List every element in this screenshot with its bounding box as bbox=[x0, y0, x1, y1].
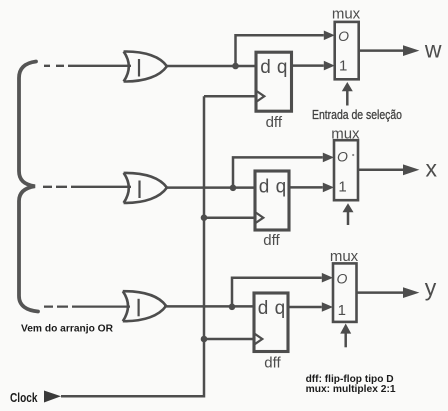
wire: row1 branch to MUX1 input 0 bbox=[236, 35, 324, 66]
svg-text:mux: mux bbox=[332, 6, 361, 23]
svg-text:w: w bbox=[424, 37, 442, 63]
svg-text:dff: dff bbox=[264, 355, 281, 372]
wire: row2 branch to MUX2 input 0 bbox=[233, 157, 323, 187]
wire: G1 output to FF1 d input bbox=[165, 65, 256, 68]
wire: MUX1 select input bbox=[346, 91, 349, 106]
svg-text:mux: mux bbox=[331, 125, 360, 142]
svg-text:O: O bbox=[337, 270, 348, 286]
svg-text:mux: multiplex 2:1: mux: multiplex 2:1 bbox=[306, 384, 396, 395]
junction node clock/FF2 bbox=[201, 214, 208, 221]
junction node clock/FF3 bbox=[201, 336, 208, 343]
or-gate G2 bbox=[124, 173, 167, 203]
junction node row 3 bbox=[229, 304, 236, 311]
svg-text:q: q bbox=[277, 57, 288, 78]
svg-text:d: d bbox=[260, 57, 271, 78]
wire: clock branch to FF2 bbox=[204, 216, 255, 219]
wire: dashed input row 3 bbox=[44, 305, 130, 307]
svg-text:x: x bbox=[425, 156, 437, 182]
svg-text:1: 1 bbox=[338, 179, 346, 196]
wire: MUX3 select input bbox=[344, 333, 347, 347]
wire: clock trunk bbox=[61, 96, 204, 396]
mux MUX3 bbox=[330, 248, 359, 322]
wire: FF2 q to MUX2 input 1 bbox=[289, 186, 323, 189]
svg-text:Vem do arranjo OR: Vem do arranjo OR bbox=[21, 323, 113, 335]
wire: clock branch to FF1 bbox=[204, 95, 256, 98]
wire: MUX2 output x bbox=[358, 169, 403, 172]
mux MUX2 bbox=[331, 125, 360, 200]
d flip-flop FF3 bbox=[254, 293, 288, 372]
wire: MUX2 select input bbox=[347, 212, 350, 226]
clock driver triangle bbox=[44, 391, 61, 403]
svg-text:O: O bbox=[338, 28, 349, 44]
svg-text:1: 1 bbox=[338, 302, 346, 319]
or-gate G3 bbox=[123, 291, 166, 321]
svg-text:d: d bbox=[259, 177, 270, 198]
wire: G2 output to FF2 d input bbox=[165, 186, 255, 189]
wire: FF1 q to MUX1 input 1 bbox=[292, 64, 324, 67]
svg-text:dff: dff bbox=[266, 114, 283, 131]
svg-text:q: q bbox=[275, 298, 286, 319]
mux MUX1 bbox=[332, 6, 361, 80]
svg-text:O: O bbox=[337, 149, 348, 165]
svg-text:d: d bbox=[258, 298, 269, 319]
wire: FF3 q to MUX3 input 1 bbox=[288, 306, 322, 309]
wire: MUX3 output y bbox=[357, 291, 404, 294]
scan dot inside MUX2 bbox=[352, 154, 354, 156]
or-gate G1 bbox=[124, 51, 167, 81]
svg-text:q: q bbox=[276, 177, 287, 198]
svg-text:Clock: Clock bbox=[10, 391, 38, 405]
junction node row 1 bbox=[232, 63, 239, 70]
input brace (groups lines from OR array) bbox=[19, 62, 38, 312]
wire: row3 branch to MUX3 input 0 bbox=[232, 278, 322, 307]
svg-text:dff: dff bbox=[263, 232, 280, 249]
svg-text:y: y bbox=[425, 275, 437, 301]
junction node row 2 bbox=[230, 185, 237, 192]
wire: MUX1 output w bbox=[359, 49, 403, 52]
wire: G3 output to FF3 d input bbox=[164, 305, 254, 308]
wire: dashed input row 1 bbox=[44, 65, 131, 67]
svg-text:mux: mux bbox=[330, 248, 359, 265]
wire: dashed input row 2 bbox=[43, 186, 131, 188]
wire: clock branch to FF3 bbox=[204, 338, 254, 341]
d flip-flop FF1 bbox=[256, 52, 292, 131]
svg-text:1: 1 bbox=[339, 58, 347, 75]
svg-text:Entrada de seleção: Entrada de seleção bbox=[312, 107, 402, 122]
d flip-flop FF2 bbox=[255, 171, 289, 249]
